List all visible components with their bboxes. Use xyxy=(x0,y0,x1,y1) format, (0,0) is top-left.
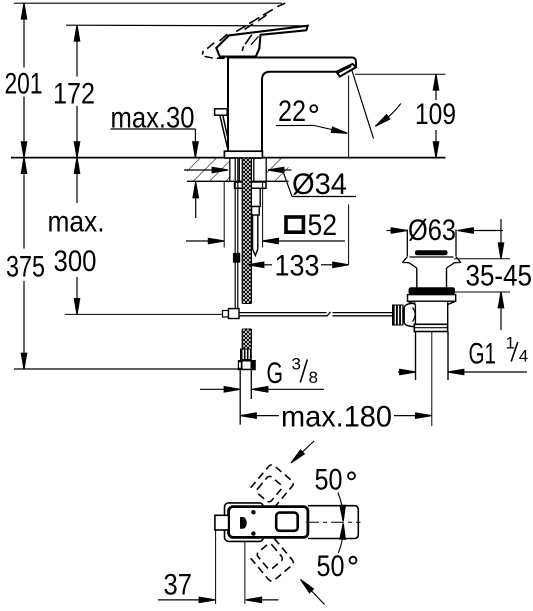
mounting washer below deck xyxy=(235,182,267,188)
dimension arrows for shank hole Ø34 xyxy=(184,167,356,196)
lower 50deg leader and arc xyxy=(299,523,357,604)
svg-text:3: 3 xyxy=(292,355,301,374)
baseline at hose end (375 datum) xyxy=(14,368,238,370)
hose end fitting G3/8 xyxy=(238,349,256,371)
handle rotated 50 down (dashed) xyxy=(251,538,295,582)
svg-text:300: 300 xyxy=(54,245,97,278)
svg-text:G1: G1 xyxy=(469,338,497,371)
threaded shank walls in deck hole xyxy=(230,158,266,181)
label 22deg with leader xyxy=(276,95,348,136)
extension line from rod for max.300 xyxy=(65,313,222,315)
dimension 201 vertical line xyxy=(21,3,26,157)
svg-text:22: 22 xyxy=(278,95,306,128)
svg-text:4: 4 xyxy=(519,347,528,366)
second hose stub (broken off) xyxy=(251,188,260,255)
svg-text:52: 52 xyxy=(308,209,338,242)
plan: spout xyxy=(308,506,358,539)
angle arc arrow xyxy=(374,104,401,129)
dimension 35-45 xyxy=(449,219,532,330)
vertical line from spout tip xyxy=(348,76,350,158)
svg-text:Ø63: Ø63 xyxy=(408,214,456,247)
dimension 109 vertical line xyxy=(433,74,438,157)
dimension max.30 leader xyxy=(111,129,199,218)
lever raised position (dashed) xyxy=(202,3,285,58)
svg-text:max.: max. xyxy=(48,206,105,239)
plan: pull-rod knob xyxy=(215,515,229,530)
svg-text:max.30: max.30 xyxy=(111,102,195,135)
countertop deck hatched section xyxy=(11,158,446,182)
supply pipe G3/8 xyxy=(240,370,251,424)
svg-text:37: 37 xyxy=(164,569,193,602)
waste body neck xyxy=(417,268,447,287)
upper 50deg leader and arc xyxy=(289,441,355,521)
svg-text:50: 50 xyxy=(315,464,343,497)
plan: handle xyxy=(229,507,308,538)
dimension Ø63 xyxy=(387,214,504,247)
label G3/8 with arrows xyxy=(200,355,324,393)
waste collar xyxy=(414,324,447,331)
22 degree water stream line xyxy=(352,70,374,139)
svg-text:max.180: max.180 xyxy=(281,401,392,434)
spout height extension line xyxy=(355,73,446,75)
svg-text:8: 8 xyxy=(309,368,318,387)
dimension 172 vertical line xyxy=(74,25,79,157)
pull-rod knob on body xyxy=(215,109,228,148)
dimension square 52 xyxy=(186,182,345,248)
rubber gasket (black band) xyxy=(409,287,456,294)
svg-text:172: 172 xyxy=(53,78,95,111)
plan: screw dots xyxy=(251,510,255,514)
label G1 1/4 with arrows xyxy=(398,334,528,375)
dimension 133 xyxy=(248,204,349,282)
second reference line (172 datum) xyxy=(66,24,305,27)
svg-text:Ø34: Ø34 xyxy=(292,168,347,201)
dimension max.180 xyxy=(241,401,432,434)
svg-text:133: 133 xyxy=(275,250,320,283)
plan: body square xyxy=(225,503,264,542)
svg-text:201: 201 xyxy=(5,68,43,101)
svg-text:50: 50 xyxy=(317,550,345,583)
svg-text:G: G xyxy=(267,357,284,390)
waste tailpipe G1 1/4 xyxy=(416,332,449,427)
svg-text:109: 109 xyxy=(415,98,456,131)
svg-text:375: 375 xyxy=(6,251,45,284)
dimension max.300 vertical line xyxy=(74,158,79,315)
seal ring below gasket xyxy=(408,295,456,325)
braided supply hose xyxy=(242,158,251,348)
handle rotated 50 up (dashed) xyxy=(251,463,295,507)
lever handle (solid) xyxy=(216,26,307,57)
dimension 375 vertical line xyxy=(21,158,26,369)
pop-up waste flange cup xyxy=(403,230,461,269)
plan: centerline xyxy=(306,521,361,523)
spout aerator (angled mousseur) xyxy=(336,64,356,77)
plan: cartridge slot xyxy=(240,517,247,529)
svg-text:35-45: 35-45 xyxy=(466,260,533,293)
svg-text:1: 1 xyxy=(506,334,515,353)
pop-up plug cap xyxy=(410,250,454,257)
horizontal pop-up linkage rod xyxy=(223,309,393,319)
plan: handle window xyxy=(276,513,298,531)
lever inner crease xyxy=(251,36,259,44)
base flange xyxy=(224,151,262,158)
dimension 37 xyxy=(158,530,279,604)
pop-up pull rod below deck xyxy=(234,158,240,308)
faucet body outline xyxy=(228,58,356,152)
top reference line (spout height datum) xyxy=(14,2,282,4)
ball-rod horn and knurled nut xyxy=(392,303,415,327)
